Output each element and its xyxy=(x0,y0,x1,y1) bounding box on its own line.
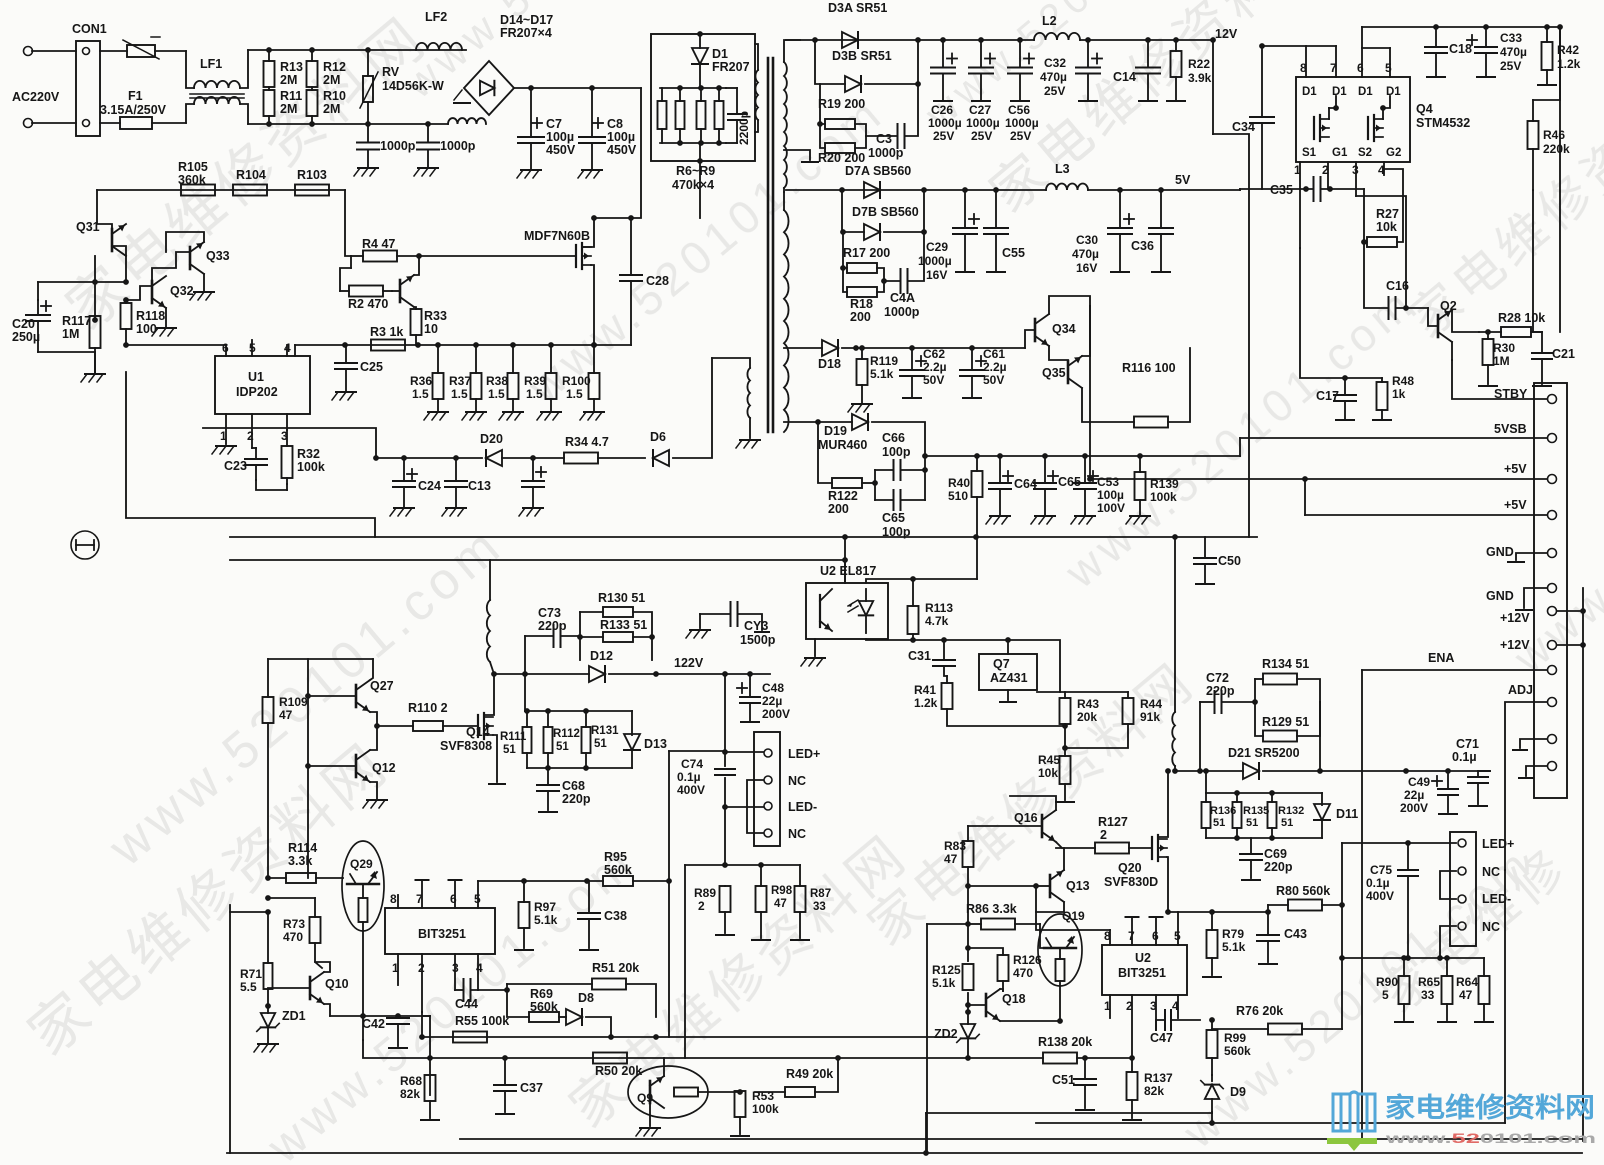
wire D18 row xyxy=(784,347,822,349)
svg-text:510: 510 xyxy=(948,489,968,503)
svg-text:51: 51 xyxy=(556,741,569,753)
capacitor C38 xyxy=(578,881,627,950)
svg-text:C33: C33 xyxy=(1500,31,1522,45)
transistor Q10 xyxy=(268,962,349,1016)
resistor R30 xyxy=(1479,329,1515,386)
wire +12Va xyxy=(1557,610,1583,612)
wire R43 top xyxy=(1037,691,1128,693)
capacitor 2200p xyxy=(726,88,751,145)
svg-text:RV: RV xyxy=(382,65,400,79)
svg-text:U1: U1 xyxy=(248,370,264,384)
svg-text:1.2k: 1.2k xyxy=(914,696,938,710)
junction xyxy=(373,455,379,461)
wire R46 top xyxy=(1533,27,1560,100)
svg-text:100V: 100V xyxy=(1097,501,1125,515)
transformer T1 secondary upper xyxy=(784,40,800,192)
varistor RV xyxy=(360,50,444,124)
resistor R122 xyxy=(818,422,878,516)
diode D1 xyxy=(692,34,750,88)
wire frame U1 area xyxy=(126,372,375,537)
svg-text:R89: R89 xyxy=(694,886,716,900)
wire adj drop xyxy=(1504,870,1506,1123)
svg-text:200V: 200V xyxy=(1400,801,1428,815)
svg-text:51: 51 xyxy=(1281,817,1293,829)
capacitor C26 xyxy=(928,37,962,143)
capacitor C56 xyxy=(1005,37,1039,143)
svg-text:360k: 360k xyxy=(178,173,206,187)
svg-text:R39: R39 xyxy=(524,374,546,388)
common-mode choke LF1 xyxy=(186,50,248,124)
svg-text:82k: 82k xyxy=(400,1087,420,1101)
wire U1 bottom xyxy=(203,428,376,458)
svg-text:www.520101.com: www.520101.com xyxy=(1384,1130,1596,1146)
thermistor RT xyxy=(100,37,186,59)
Q4 pin numbers bottom xyxy=(1294,162,1385,196)
resistor R79 xyxy=(1203,912,1246,977)
capacitor C72 xyxy=(1200,671,1255,771)
junction xyxy=(123,279,129,285)
resistor R109 xyxy=(263,659,309,878)
svg-text:Q19: Q19 xyxy=(1062,909,1085,923)
svg-text:C27: C27 xyxy=(969,103,991,117)
svg-text:R116 100: R116 100 xyxy=(1122,361,1176,375)
svg-text:C75: C75 xyxy=(1370,863,1392,877)
svg-text:FR207: FR207 xyxy=(712,60,750,74)
resistor R17 xyxy=(840,229,890,281)
wire 5VSB jog xyxy=(1239,438,1241,456)
diode D21 xyxy=(1228,746,1300,779)
resistor R129 xyxy=(1252,699,1320,741)
resistor R73 xyxy=(265,895,322,968)
wire bottom border2 xyxy=(1036,1122,1505,1124)
svg-text:Q33: Q33 xyxy=(206,249,230,263)
gnd aux2 xyxy=(1519,766,1547,778)
resistor R113 xyxy=(908,579,954,643)
svg-text:Q13: Q13 xyxy=(1066,879,1090,893)
svg-text:R83: R83 xyxy=(944,839,966,853)
svg-text:C55: C55 xyxy=(1002,246,1025,260)
svg-text:470: 470 xyxy=(283,930,303,944)
svg-text:82k: 82k xyxy=(1144,1084,1164,1098)
resistor R27 xyxy=(1361,169,1403,247)
wire 5V to C35 xyxy=(1239,189,1241,190)
svg-text:R28 10k: R28 10k xyxy=(1498,311,1545,325)
resistor R103 xyxy=(295,168,329,196)
svg-text:1000µ: 1000µ xyxy=(928,116,962,130)
svg-text:47: 47 xyxy=(279,708,293,722)
pin GND xyxy=(1486,545,1557,559)
pin aux1 xyxy=(1548,735,1557,744)
resistors R6-R9 xyxy=(658,85,727,192)
wire ADJ xyxy=(1505,702,1547,870)
wire bottom border3 xyxy=(460,1138,1582,1140)
wire R71 tap xyxy=(230,911,268,913)
resistor R51 xyxy=(507,961,656,1017)
junction xyxy=(524,708,530,714)
svg-text:8: 8 xyxy=(390,892,397,906)
wire S1 down xyxy=(1299,189,1301,248)
capacitor C42 xyxy=(362,1013,430,1048)
resistor R135 xyxy=(1233,793,1242,838)
svg-text:R27: R27 xyxy=(1376,207,1399,221)
resistor R71 xyxy=(240,909,273,1009)
ground Q12 xyxy=(367,799,387,801)
svg-text:Q9: Q9 xyxy=(637,1091,653,1105)
labels R111 R112 R131 xyxy=(500,725,619,756)
gnd aux1 xyxy=(1513,739,1547,750)
junction xyxy=(123,297,129,303)
svg-text:G2: G2 xyxy=(1386,147,1401,159)
connector CON1 xyxy=(12,22,107,136)
wire pin3 G1 xyxy=(1356,196,1406,308)
svg-text:NC: NC xyxy=(1482,865,1500,879)
wire bottom border xyxy=(227,1152,1582,1154)
svg-text:G1: G1 xyxy=(1332,147,1348,159)
wire left drop xyxy=(429,1016,431,1095)
capacitor C71 xyxy=(1452,737,1488,806)
resistor R83 xyxy=(944,826,974,924)
svg-text:47: 47 xyxy=(1459,988,1473,1002)
inverter winding xyxy=(487,560,494,674)
resistor R45 xyxy=(1038,748,1074,802)
svg-text:R30: R30 xyxy=(1493,341,1515,355)
wire left border xyxy=(229,905,231,1153)
svg-text:51: 51 xyxy=(503,744,516,756)
svg-text:R132: R132 xyxy=(1278,805,1304,817)
resistor R53 xyxy=(731,1089,779,1136)
capacitor C13 xyxy=(442,458,491,516)
LED connector 1 xyxy=(754,732,820,846)
capacitor C47 xyxy=(1150,1010,1200,1045)
svg-text:200V: 200V xyxy=(762,707,790,721)
wire led2 b xyxy=(1440,871,1456,899)
svg-text:D1: D1 xyxy=(1332,86,1347,98)
svg-text:C30: C30 xyxy=(1076,233,1098,247)
wire R86 left xyxy=(927,923,968,925)
resistor R139 xyxy=(1126,453,1179,524)
svg-text:R13: R13 xyxy=(280,60,303,74)
wire +5V feed xyxy=(1089,306,1091,479)
svg-text:1000µ: 1000µ xyxy=(918,254,952,268)
svg-text:R17 200: R17 200 xyxy=(843,246,890,260)
wire opto to bus xyxy=(844,537,846,583)
diode D20 xyxy=(480,432,503,466)
svg-text:C69: C69 xyxy=(1264,847,1287,861)
resistor R132 xyxy=(1268,793,1277,838)
svg-text:S2: S2 xyxy=(1358,147,1372,159)
resistor R40 xyxy=(948,453,983,579)
svg-text:Q7: Q7 xyxy=(993,657,1010,671)
svg-text:16V: 16V xyxy=(1076,261,1097,275)
capacitor C14 xyxy=(1113,37,1160,101)
svg-text:C18: C18 xyxy=(1449,42,1472,56)
junction xyxy=(365,47,371,53)
wire R129 node xyxy=(1319,702,1321,771)
svg-text:C7: C7 xyxy=(546,117,562,131)
svg-text:Q4: Q4 xyxy=(1416,102,1433,116)
transformer T1 primary xyxy=(755,44,758,132)
svg-text:R64: R64 xyxy=(1456,975,1478,989)
wire bus537 xyxy=(230,536,1257,538)
svg-text:5.1k: 5.1k xyxy=(1222,940,1246,954)
svg-text:C37: C37 xyxy=(520,1081,543,1095)
svg-text:CY3: CY3 xyxy=(744,619,768,633)
resistor R131 xyxy=(582,711,591,768)
wire R46 down xyxy=(1533,190,1542,332)
U3 pins top xyxy=(390,880,481,908)
svg-text:MDF7N60B: MDF7N60B xyxy=(524,229,590,243)
wire inv2 rail xyxy=(1175,770,1243,772)
svg-text:2M: 2M xyxy=(280,102,297,116)
svg-text:R113: R113 xyxy=(925,601,953,615)
svg-text:25V: 25V xyxy=(1044,84,1065,98)
svg-text:C29: C29 xyxy=(926,240,948,254)
resistor R46 xyxy=(1528,100,1571,190)
diode D18 xyxy=(818,340,841,371)
svg-text:R79: R79 xyxy=(1222,927,1244,941)
svg-text:C56: C56 xyxy=(1008,103,1030,117)
svg-text:R40: R40 xyxy=(948,476,970,490)
svg-text:100p: 100p xyxy=(882,445,911,459)
svg-text:50V: 50V xyxy=(923,373,944,387)
resistor R89 xyxy=(694,886,734,935)
svg-text:220p: 220p xyxy=(538,619,567,633)
svg-text:R112: R112 xyxy=(553,728,580,740)
svg-text:D6: D6 xyxy=(650,430,666,444)
svg-text:R76 20k: R76 20k xyxy=(1236,1004,1283,1018)
wire R80 drop xyxy=(1341,958,1343,1029)
capacitor C7 xyxy=(517,88,576,178)
svg-text:Q32: Q32 xyxy=(170,284,194,298)
svg-text:91k: 91k xyxy=(1140,710,1160,724)
svg-text:R46: R46 xyxy=(1543,128,1565,142)
resistor R11 xyxy=(264,89,303,124)
svg-text:Q2: Q2 xyxy=(1440,299,1457,313)
svg-text:R95: R95 xyxy=(604,850,627,864)
capacitor C28 xyxy=(620,218,669,345)
capacitor C74 xyxy=(677,757,735,797)
svg-text:R12: R12 xyxy=(323,60,346,74)
svg-text:D14~D17: D14~D17 xyxy=(500,13,553,27)
resistor R104 xyxy=(233,168,267,196)
svg-text:LED-: LED- xyxy=(1482,892,1511,906)
resistor R99 xyxy=(1207,1017,1252,1075)
svg-text:C35: C35 xyxy=(1270,183,1293,197)
svg-text:C26: C26 xyxy=(931,103,953,117)
diode D9 xyxy=(1201,1075,1246,1113)
junction xyxy=(941,637,947,643)
optocoupler U2 EL817 xyxy=(806,564,888,639)
svg-text:LED+: LED+ xyxy=(1482,837,1514,851)
svg-text:D21 SR5200: D21 SR5200 xyxy=(1228,746,1300,760)
snub rails inv2 xyxy=(1206,792,1322,794)
ground Q33 xyxy=(190,274,214,300)
diode D3A xyxy=(828,1,887,48)
svg-text:122V: 122V xyxy=(674,656,704,670)
junction xyxy=(491,671,497,677)
diode D7B xyxy=(839,187,927,240)
svg-text:560k: 560k xyxy=(604,863,632,877)
resistor R41 xyxy=(914,676,1065,726)
sense resistors R36-R100 xyxy=(410,342,604,420)
svg-text:1000µ: 1000µ xyxy=(1005,116,1039,130)
IC Q4 STM4532 box xyxy=(1296,77,1470,162)
svg-text:C73: C73 xyxy=(538,606,561,620)
svg-text:1000µ: 1000µ xyxy=(966,116,1000,130)
diode D8 xyxy=(566,991,611,1037)
svg-text:12V: 12V xyxy=(1215,27,1238,41)
svg-text:NC: NC xyxy=(1482,920,1500,934)
Q4 pin numbers top xyxy=(1300,27,1392,77)
svg-text:R41: R41 xyxy=(914,683,936,697)
svg-text:R50 20k: R50 20k xyxy=(595,1064,642,1078)
svg-text:R34 4.7: R34 4.7 xyxy=(565,435,609,449)
wire Q2 collector xyxy=(1452,310,1479,332)
resistor R114 xyxy=(265,841,343,883)
transformer T1 secondary lower xyxy=(784,192,789,432)
resistor R80 xyxy=(1268,884,1342,912)
wire Q29 bottom xyxy=(363,1040,430,1058)
wire snub rail top xyxy=(525,710,632,712)
svg-text:C36: C36 xyxy=(1131,239,1154,253)
svg-text:C47: C47 xyxy=(1150,1031,1173,1045)
junction xyxy=(1210,37,1216,43)
resistor R136 xyxy=(1202,793,1211,838)
svg-text:470k×4: 470k×4 xyxy=(672,178,714,192)
fuse F1 xyxy=(100,89,186,129)
resistor R44 xyxy=(1065,692,1162,748)
svg-text:1000p: 1000p xyxy=(884,305,920,319)
pin aux2 xyxy=(1548,762,1557,771)
svg-text:AC220V: AC220V xyxy=(12,90,60,104)
svg-text:Q34: Q34 xyxy=(1052,322,1076,336)
pin GND xyxy=(1486,584,1557,604)
resistor R130 xyxy=(580,591,652,637)
svg-text:Q20: Q20 xyxy=(1118,861,1142,875)
junction xyxy=(915,37,921,43)
svg-text:R118: R118 xyxy=(136,309,165,323)
svg-text:R69: R69 xyxy=(530,987,553,1001)
resistor R22 xyxy=(1167,37,1212,101)
svg-text:D3A SR51: D3A SR51 xyxy=(828,1,887,15)
wire Q19 to pin8 xyxy=(1036,886,1110,930)
ground U1 pin1 xyxy=(216,445,236,447)
wire pin5 bus xyxy=(478,880,603,882)
resistor R87 xyxy=(791,865,831,940)
resistor R13 xyxy=(264,50,303,90)
svg-text:1.5: 1.5 xyxy=(526,387,543,401)
transistor Q19 pack xyxy=(1038,909,1085,1021)
svg-text:R119: R119 xyxy=(870,354,898,368)
svg-text:R100: R100 xyxy=(562,374,591,388)
resistor R116 xyxy=(1082,348,1190,428)
capacitor C33 xyxy=(1467,24,1527,77)
svg-text:R133 51: R133 51 xyxy=(600,618,647,632)
wire lower loop xyxy=(256,480,287,490)
wire ENA xyxy=(1362,669,1547,671)
svg-text:2: 2 xyxy=(1100,828,1107,842)
bridge rectifier D14-D17 xyxy=(454,13,553,115)
wire led2 c xyxy=(1440,926,1456,958)
capacitor C34 xyxy=(1232,46,1274,189)
transistor Q32 xyxy=(152,276,194,308)
inductor L3 xyxy=(1046,162,1088,190)
svg-text:R80 560k: R80 560k xyxy=(1276,884,1330,898)
resistor R18 xyxy=(840,265,887,324)
svg-text:R20 200: R20 200 xyxy=(818,151,865,165)
svg-text:6: 6 xyxy=(1357,61,1364,75)
svg-text:R73: R73 xyxy=(283,917,305,931)
svg-text:D1: D1 xyxy=(1386,86,1401,98)
wire snubber to drain xyxy=(699,161,701,218)
capacitor C37 xyxy=(494,1058,543,1114)
junction xyxy=(628,215,634,221)
svg-text:R104: R104 xyxy=(236,168,266,182)
wire vcc line xyxy=(376,457,482,459)
svg-text:STM4532: STM4532 xyxy=(1416,116,1470,130)
wire Q31 base chain xyxy=(37,282,39,300)
svg-text:GND: GND xyxy=(1486,589,1514,603)
pin STBY xyxy=(1494,387,1557,404)
wire C17 R48 top xyxy=(1300,248,1382,378)
capacitor C65b xyxy=(1031,453,1081,524)
svg-text:ZD2: ZD2 xyxy=(934,1027,958,1041)
transistor Q16 xyxy=(968,796,1062,848)
svg-text:R126: R126 xyxy=(1013,953,1042,967)
wire opto top xyxy=(844,560,846,583)
resistors R90 R65 R64 xyxy=(1342,955,1493,1022)
svg-text:R103: R103 xyxy=(297,168,327,182)
junction xyxy=(1557,24,1563,30)
svg-text:ENA: ENA xyxy=(1428,651,1454,665)
resistor R49 xyxy=(755,1060,838,1097)
junction xyxy=(309,121,315,127)
junction xyxy=(342,342,348,348)
wire pin5 inv2 xyxy=(1168,911,1268,913)
svg-text:R129 51: R129 51 xyxy=(1262,715,1309,729)
svg-text:1.5: 1.5 xyxy=(451,387,468,401)
svg-text:D19: D19 xyxy=(824,424,847,438)
svg-text:D13: D13 xyxy=(644,737,667,751)
svg-text:D11: D11 xyxy=(1336,807,1358,821)
svg-text:R97: R97 xyxy=(534,900,556,914)
svg-text:560k: 560k xyxy=(1224,1044,1251,1058)
svg-text:D20: D20 xyxy=(480,432,503,446)
svg-text:+5V: +5V xyxy=(1504,498,1527,512)
wire C74 column xyxy=(724,674,726,766)
wire Vin top xyxy=(1362,26,1560,28)
svg-text:R45: R45 xyxy=(1038,753,1060,767)
wire R41 loop xyxy=(1062,723,1068,729)
capacitor C32 xyxy=(1040,37,1102,101)
resistor R68 xyxy=(400,1074,439,1120)
svg-text:C53: C53 xyxy=(1097,475,1119,489)
svg-text:D3B SR51: D3B SR51 xyxy=(832,49,892,63)
resistor R19 xyxy=(818,84,866,136)
svg-text:R32: R32 xyxy=(297,447,320,461)
svg-text:L2: L2 xyxy=(1042,14,1057,28)
resistor R126 xyxy=(968,948,1042,991)
resistor R118 xyxy=(121,300,166,348)
svg-text:C28: C28 xyxy=(646,274,669,288)
resistor R4 xyxy=(351,237,419,262)
svg-text:100k: 100k xyxy=(297,460,325,474)
capacitor C18 xyxy=(1425,24,1472,77)
svg-text:F1: F1 xyxy=(128,89,143,103)
IC U2 BIT3251 xyxy=(1102,945,1187,995)
svg-text:NC: NC xyxy=(788,827,806,841)
junction xyxy=(528,85,534,91)
